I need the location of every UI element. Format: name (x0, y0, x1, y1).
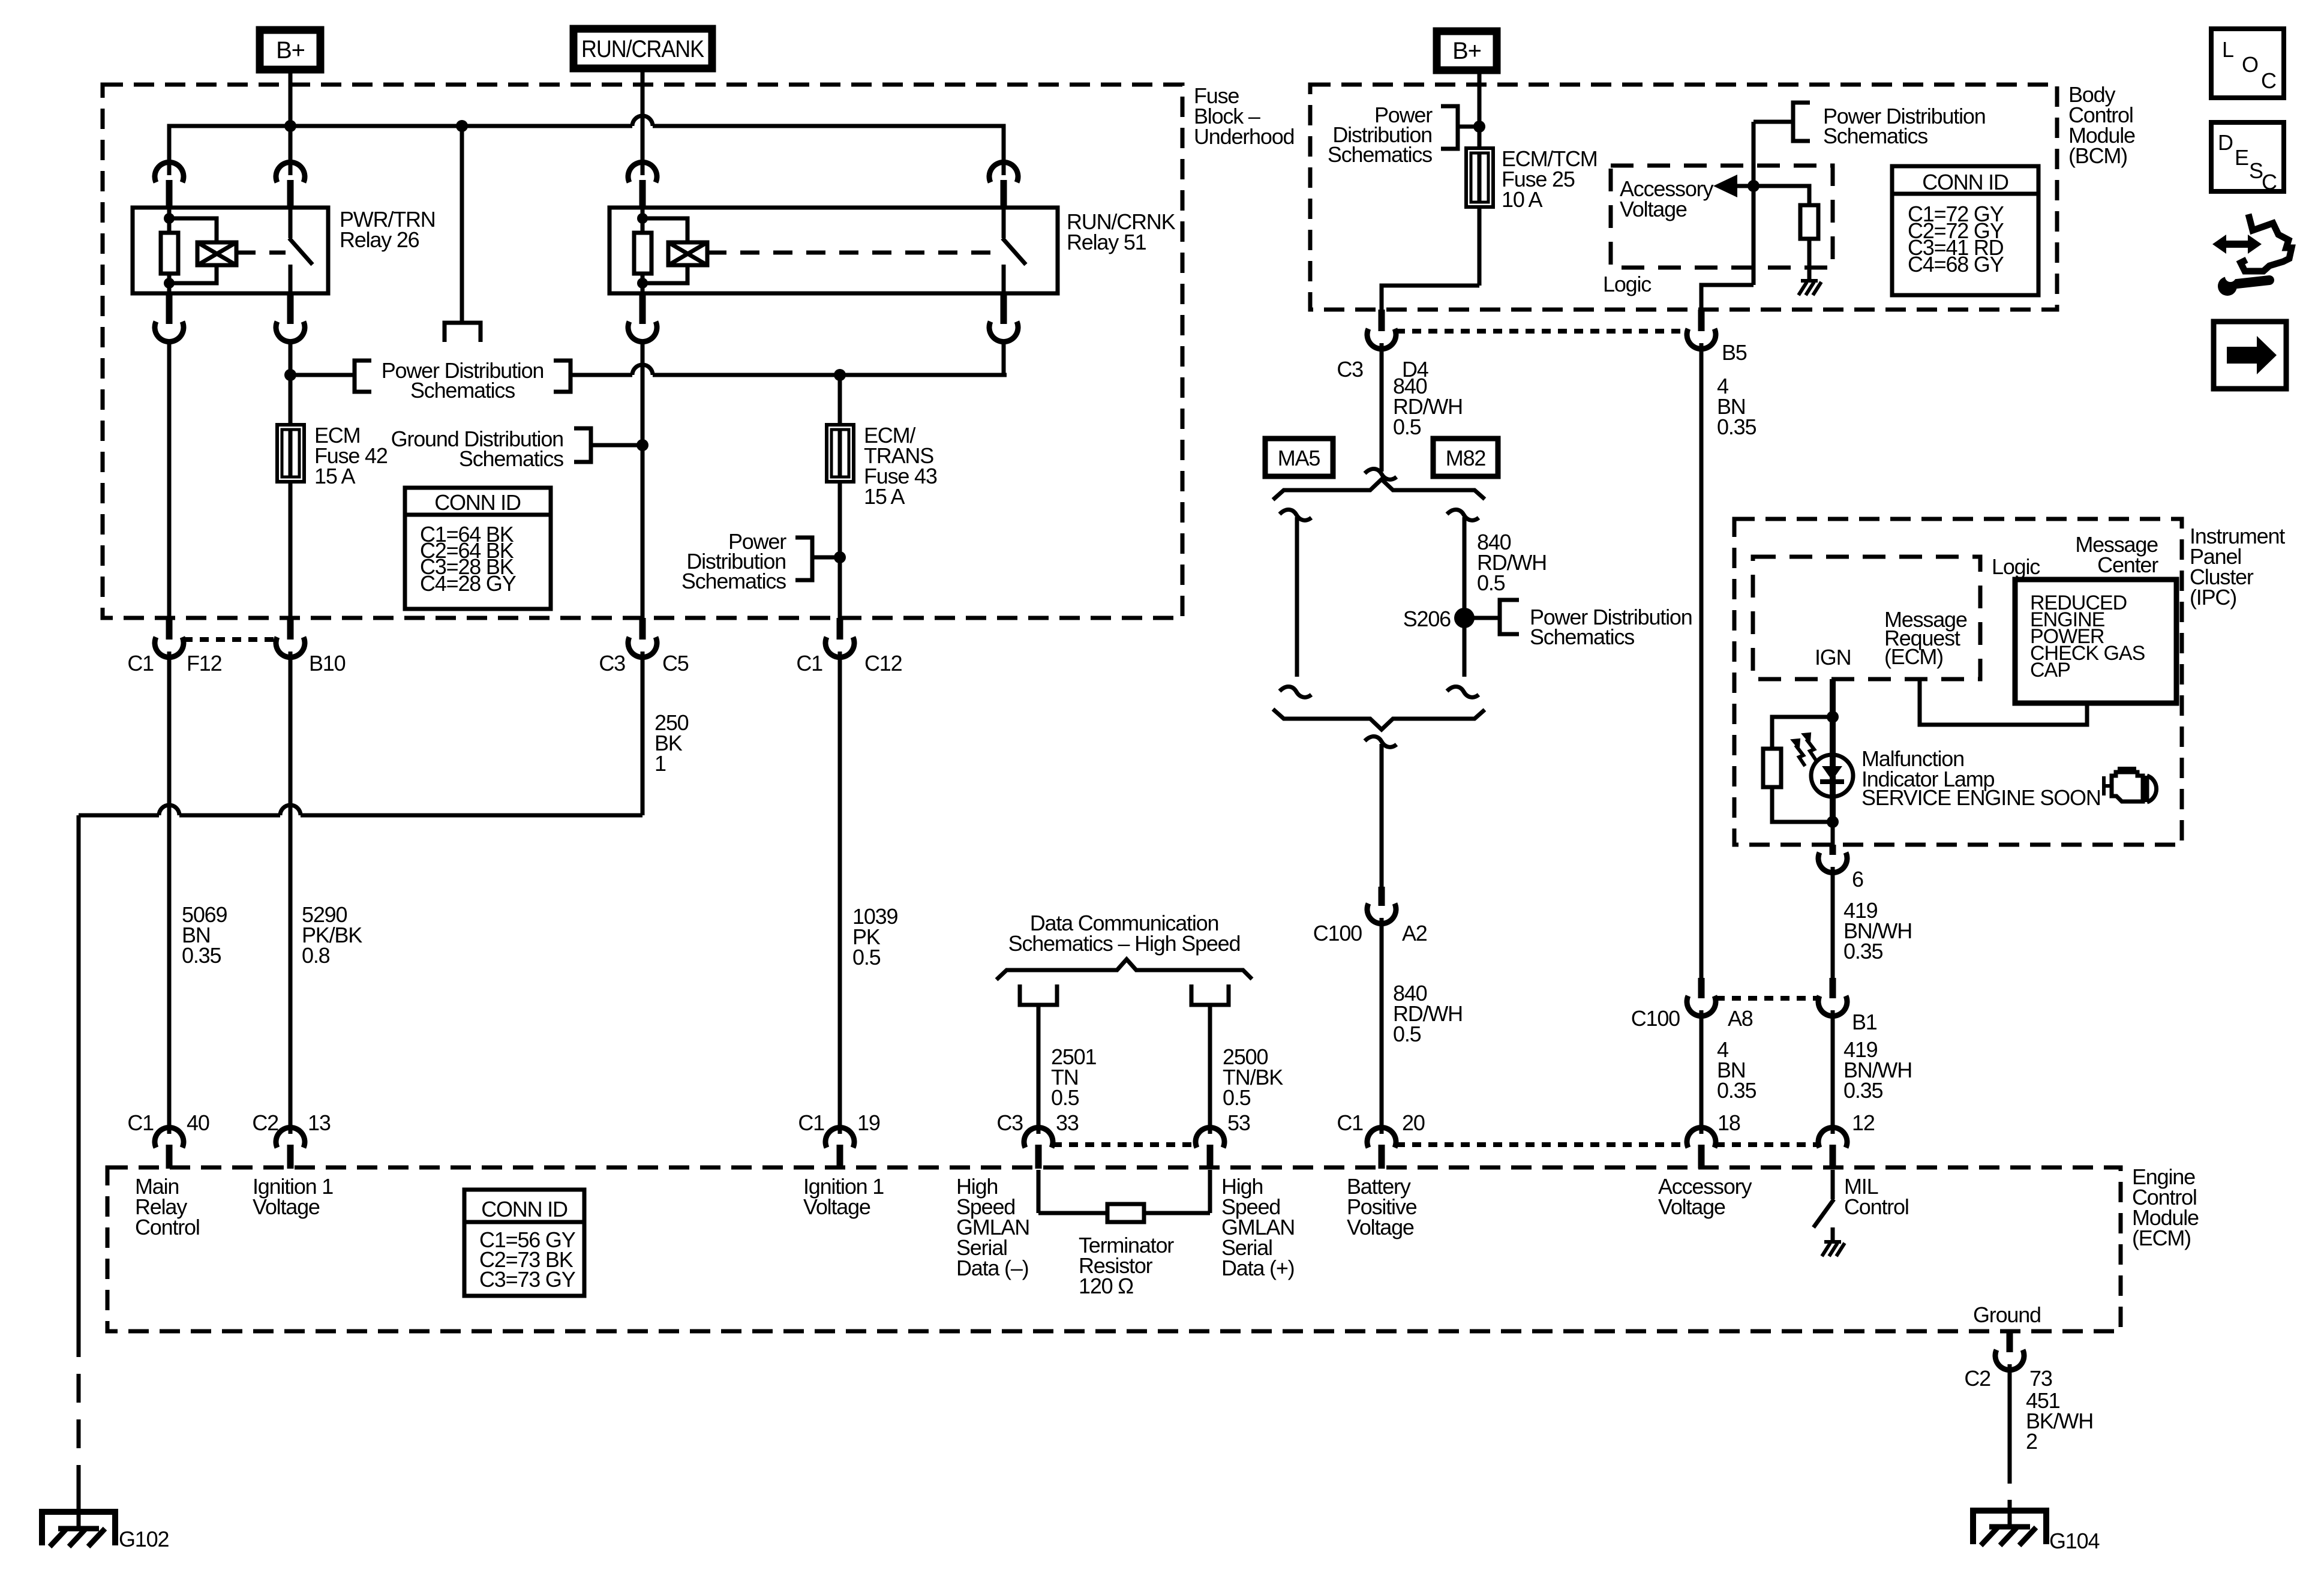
svg-text:S206: S206 (1403, 607, 1451, 631)
data communication label and brace (996, 911, 1252, 980)
svg-text:Schematics – High Speed: Schematics – High Speed (1008, 931, 1241, 956)
svg-text:40: 40 (187, 1110, 209, 1135)
instrument panel cluster dashed box (1734, 519, 2285, 845)
wire relay26 coil out (167, 343, 172, 618)
svg-text:0.5: 0.5 (852, 945, 881, 969)
relay51 coil-switch dashed link (707, 251, 999, 255)
wire 840 to harness split (1382, 343, 1463, 472)
svg-text:Schematics: Schematics (1530, 625, 1634, 649)
ECM pin 40 connector (127, 1110, 209, 1169)
svg-text:C5: C5 (662, 651, 689, 676)
ECM pin function labels (135, 1174, 1909, 1280)
svg-text:L: L (2222, 37, 2233, 62)
inline hook at harness split (1365, 469, 1397, 480)
connector pin relay26 coil top (155, 162, 184, 208)
svg-text:13: 13 (308, 1110, 331, 1135)
ECM pin 20 connector (1337, 1110, 1424, 1169)
dashed ground wire to G102 (77, 1328, 81, 1495)
svg-text:33: 33 (1056, 1110, 1079, 1135)
DESC icon (2211, 122, 2284, 194)
junction dot switched bus at 484 (284, 369, 296, 381)
MIL lamp LED (1811, 755, 1853, 797)
wire 5069 down with hop (169, 652, 227, 1134)
engine icon (2104, 769, 2157, 802)
relay K26 PWR/TRN box (133, 207, 436, 293)
svg-text:(IPC): (IPC) (2190, 585, 2236, 610)
fuse block output connector C1/F12 (127, 618, 221, 676)
svg-text:C1: C1 (796, 651, 822, 676)
svg-text:20: 20 (1402, 1110, 1425, 1135)
MIL control switch inside ECM (1813, 1170, 1845, 1256)
fuse 42 ECM (277, 423, 388, 488)
svg-text:C: C (2261, 68, 2276, 93)
svg-text:Voltage: Voltage (1347, 1215, 1414, 1239)
svg-text:0.35: 0.35 (1717, 1078, 1756, 1103)
connector link dash 33 to 53 (1053, 1142, 1196, 1147)
malfunction indicator lamp label (1861, 746, 2101, 810)
ECM pin 53 connector (1196, 1110, 1250, 1169)
IGN wire from logic (1827, 679, 1839, 828)
IPC logic dashed box (1753, 554, 2040, 679)
svg-text:C4=68 GY: C4=68 GY (1908, 252, 2004, 277)
relay26 coil-switch dashed link (236, 251, 286, 255)
svg-text:C1: C1 (798, 1110, 824, 1135)
svg-text:(BCM): (BCM) (2068, 143, 2127, 168)
connector link dash 20 to 18 to 12 (1396, 1142, 1818, 1147)
svg-text:A8: A8 (1728, 1006, 1753, 1031)
svg-text:Voltage: Voltage (803, 1194, 870, 1219)
svg-text:Schematics: Schematics (1823, 124, 1927, 148)
svg-text:MA5: MA5 (1278, 446, 1320, 470)
wire 2501 TN from data bus (1020, 984, 1096, 1134)
CONN ID table (BCM) (1892, 166, 2038, 295)
svg-text:53: 53 (1227, 1110, 1250, 1135)
CONN ID table (fuse block) (405, 488, 551, 609)
harness brace upper (1273, 479, 1485, 500)
ECM pin 19 connector (798, 1110, 879, 1169)
message request label (1884, 607, 1967, 669)
svg-text:Voltage: Voltage (253, 1194, 320, 1219)
svg-text:CAP: CAP (2030, 659, 2070, 682)
svg-text:C: C (2262, 170, 2277, 194)
BCM internal wire (1701, 122, 1759, 310)
connector pin relay51 switch top (989, 162, 1018, 208)
LOC icon (2211, 29, 2284, 98)
relay26 coil branch (164, 213, 217, 289)
fuse block underhood dashed box (103, 83, 1294, 618)
splice S206 (1403, 600, 1692, 649)
ground G102 (42, 1489, 169, 1551)
svg-text:B1: B1 (1852, 1010, 1877, 1034)
relay26 coil symbol (197, 242, 236, 265)
CONN ID table (ECM) (464, 1190, 584, 1296)
connector pin relay51 switch bottom (989, 293, 1018, 342)
svg-text:IGN: IGN (1815, 645, 1851, 670)
wire 4 BN to ECM pin 18 (1701, 1010, 1756, 1134)
wire 250 BK to ground run (642, 652, 689, 815)
svg-text:10 A: 10 A (1502, 187, 1542, 212)
svg-text:15 A: 15 A (864, 484, 905, 509)
svg-text:Underhood: Underhood (1194, 124, 1294, 149)
message center label (2075, 532, 2158, 577)
svg-text:C2: C2 (1964, 1366, 1990, 1391)
svg-text:Schematics: Schematics (681, 569, 786, 593)
junction dot B+ bus at 770 (456, 120, 468, 132)
svg-text:SERVICE ENGINE SOON: SERVICE ENGINE SOON (1861, 785, 2101, 810)
svg-text:B+: B+ (276, 37, 305, 64)
svg-text:Voltage: Voltage (1658, 1194, 1725, 1219)
power distribution down-bracket (445, 323, 481, 342)
wire to fuse 43 (838, 375, 842, 618)
RUN/CRANK power tag (574, 29, 712, 68)
svg-text:G104: G104 (2049, 1529, 2099, 1553)
wire to power distribution pointer (460, 126, 464, 323)
B+ power tag 2 (1437, 31, 1497, 70)
wire RUN/CRANK down with hop over bus (641, 68, 645, 175)
wire label 840 on M82 branch (1477, 530, 1547, 595)
connector link dash C3/D4 to B5 (1396, 329, 1686, 334)
wire 840 to C100 A2 (1380, 744, 1384, 887)
message center box (2015, 580, 2176, 703)
ECM pin 33 connector (996, 1110, 1078, 1169)
wire B+2 down through fuse 25 (1478, 70, 1482, 286)
svg-text:0.5: 0.5 (1223, 1085, 1251, 1110)
svg-text:15 A: 15 A (314, 464, 355, 488)
harness brace lower (1273, 709, 1485, 730)
svg-text:C3=73 GY: C3=73 GY (479, 1267, 576, 1292)
fuse block output connector C1/C12 (796, 618, 902, 676)
svg-text:0.5: 0.5 (1393, 1022, 1421, 1046)
svg-text:F12: F12 (187, 651, 222, 676)
wire relay26 switch out (289, 343, 293, 618)
wire 419 to C100 B1 (1833, 867, 1912, 978)
svg-text:0.35: 0.35 (1717, 415, 1756, 439)
fuse block output connector C3/C5 (599, 618, 688, 676)
svg-text:C4=28 GY: C4=28 GY (420, 571, 517, 596)
relay26 coil resistor (161, 208, 178, 293)
junction dot B+ bus at 484 (284, 120, 296, 132)
svg-text:Center: Center (2097, 553, 2158, 577)
svg-text:C100: C100 (1631, 1006, 1680, 1031)
connector pin relay26 switch bottom (276, 293, 305, 342)
svg-text:C2: C2 (252, 1110, 278, 1135)
svg-text:E: E (2235, 145, 2248, 170)
svg-text:C100: C100 (1313, 921, 1362, 945)
BCM power distribution reference (1753, 103, 1986, 148)
ECM ground pin connector C2/73 (1964, 1331, 2052, 1391)
power distribution reference at fuse 43 (681, 529, 846, 593)
relay51 switch (1002, 208, 1026, 293)
svg-text:Relay 26: Relay 26 (340, 227, 419, 252)
ground distribution reference (391, 427, 648, 471)
B+ bus wire (169, 116, 1004, 175)
svg-text:Control: Control (135, 1215, 200, 1239)
connector C100 B1 (1818, 978, 1877, 1034)
arrow icon (2214, 322, 2286, 389)
svg-text:G102: G102 (119, 1527, 169, 1551)
MA5 harness tag (1265, 439, 1333, 476)
svg-text:C1: C1 (127, 651, 154, 676)
wire 4 BN down to C100 A8 (1701, 343, 1756, 978)
svg-text:0.8: 0.8 (302, 943, 330, 968)
relay51 coil resistor (634, 208, 651, 293)
LED light arrows (1792, 734, 1816, 766)
wire relay51 coil out (641, 343, 645, 618)
engine control module dashed box (107, 1164, 2199, 1331)
relay K51 RUN/CRNK box (609, 208, 1176, 293)
harness branch M82 wire (1447, 510, 1479, 698)
svg-text:C1: C1 (127, 1110, 154, 1135)
svg-text:A2: A2 (1402, 921, 1427, 945)
svg-text:Control: Control (1844, 1194, 1909, 1219)
svg-text:2: 2 (2026, 1429, 2037, 1454)
svg-text:B5: B5 (1722, 340, 1747, 365)
BCM output connector C3/D4 (1337, 310, 1428, 382)
wire MIL through IPC border (1831, 824, 1835, 847)
harness branch MA5 wire (1280, 510, 1311, 698)
M82 harness tag (1433, 439, 1498, 476)
connector link dash C1/F12 to B10 (184, 637, 276, 642)
svg-text:120 Ω: 120 Ω (1079, 1274, 1133, 1298)
BCM accessory arrow (1713, 175, 1753, 197)
connector B5 (1687, 310, 1747, 365)
svg-text:0.5: 0.5 (1393, 415, 1421, 439)
switched bus with inline reference (290, 343, 1007, 403)
svg-text:B10: B10 (309, 651, 346, 676)
MIL lamp parallel resistor (1763, 717, 1833, 822)
svg-text:Relay 51: Relay 51 (1067, 230, 1146, 254)
relay26 switch (289, 208, 313, 293)
svg-text:6: 6 (1852, 867, 1863, 891)
svg-text:C3: C3 (1337, 357, 1363, 382)
relay51 coil symbol (668, 242, 707, 265)
connector 6 at IPC (1818, 845, 1863, 891)
BCM load resistor to ground (1753, 186, 1821, 295)
svg-text:73: 73 (2029, 1366, 2052, 1391)
svg-text:1: 1 (654, 751, 666, 776)
svg-text:CONN ID: CONN ID (434, 490, 521, 515)
connector C100 A8 (1631, 978, 1753, 1031)
svg-text:12: 12 (1852, 1110, 1875, 1135)
inline hook below harness merge (1365, 737, 1397, 748)
svg-text:RUN/CRANK: RUN/CRANK (581, 36, 704, 62)
svg-text:D: D (2218, 130, 2233, 155)
connector C100 A2 (1313, 887, 1427, 945)
svg-text:0.35: 0.35 (182, 943, 221, 968)
svg-text:Logic: Logic (1992, 554, 2040, 579)
ground run horizontal with hops (79, 805, 642, 1328)
svg-text:S: S (2249, 158, 2263, 183)
terminator resistor loop (1038, 1170, 1210, 1298)
svg-text:18: 18 (1718, 1110, 1740, 1135)
wire jog to BCM C3/D4 pin (1382, 286, 1479, 310)
svg-text:Ground: Ground (1973, 1302, 2041, 1327)
ECM pin 18 connector (1687, 1110, 1740, 1169)
BCM accessory voltage dashed box (1611, 166, 1833, 268)
svg-text:Schematics: Schematics (459, 446, 563, 471)
wrench-arrow icon (2212, 214, 2292, 296)
fuse block output connector B10 (276, 618, 346, 676)
relay51 coil branch (637, 213, 687, 289)
connector pin relay51 coil top (628, 162, 657, 208)
ECM pin 12 connector (1818, 1110, 1875, 1169)
svg-text:CONN ID: CONN ID (481, 1197, 568, 1221)
svg-text:B+: B+ (1452, 38, 1481, 64)
svg-text:Data (–): Data (–) (956, 1256, 1028, 1280)
message request wire to message center (1920, 679, 2087, 725)
svg-text:Schematics: Schematics (1328, 142, 1432, 167)
junction dot fuse43 tap (834, 369, 846, 381)
svg-text:C1: C1 (1337, 1110, 1363, 1135)
fuse 25 ECM/TCM (1466, 146, 1598, 212)
svg-text:C3: C3 (996, 1110, 1023, 1135)
ECM pin 13 connector (252, 1110, 330, 1169)
dashed ground wire to G104 (2008, 1455, 2012, 1507)
svg-text:M82: M82 (1446, 446, 1486, 470)
connector pin relay51 coil bottom (628, 293, 657, 342)
svg-text:0.35: 0.35 (1843, 939, 1882, 963)
ground G104 (1973, 1500, 2099, 1553)
wire 840 to ECM pin 20 (1382, 918, 1463, 1134)
svg-text:C12: C12 (864, 651, 902, 676)
wire 5290 down (290, 652, 362, 1134)
wire 419 to ECM pin 12 (1833, 1010, 1912, 1134)
svg-text:0.5: 0.5 (1051, 1085, 1079, 1110)
wire 2500 TN/BK from data bus (1191, 984, 1283, 1134)
svg-text:Logic: Logic (1603, 272, 1652, 296)
svg-text:Data (+): Data (+) (1221, 1256, 1294, 1280)
body control module dashed box (1310, 82, 2135, 310)
svg-text:Voltage: Voltage (1620, 197, 1687, 221)
svg-text:O: O (2242, 52, 2258, 77)
B+ power tag 1 (260, 30, 320, 70)
connector link dash A8 to B1 (1716, 996, 1818, 1001)
svg-text:(ECM): (ECM) (1884, 644, 1943, 669)
junction dot fuse25 tap (1473, 121, 1485, 133)
connector pin relay26 coil bottom (155, 293, 184, 342)
svg-text:(ECM): (ECM) (2132, 1226, 2191, 1250)
fuse 43 ECM/TRANS (827, 423, 937, 509)
svg-text:Schematics: Schematics (410, 378, 515, 403)
svg-text:0.35: 0.35 (1843, 1078, 1882, 1103)
svg-text:CONN ID: CONN ID (1922, 170, 2008, 194)
wire 1039 PK down (840, 652, 897, 1134)
connector pin relay26 switch top (276, 162, 305, 208)
svg-text:C3: C3 (599, 651, 625, 676)
power distribution reference at fuse 25 (1328, 103, 1479, 167)
svg-text:19: 19 (857, 1110, 880, 1135)
wire 451 BK/WH (2010, 1364, 2093, 1455)
wire B+ down (289, 70, 293, 175)
svg-text:0.5: 0.5 (1477, 571, 1505, 595)
